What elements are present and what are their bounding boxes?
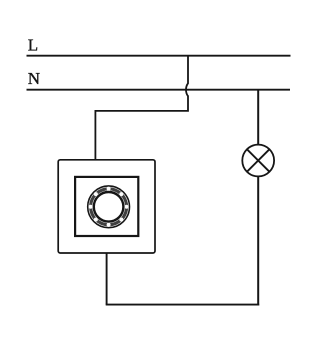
wire N line <box>27 89 291 91</box>
dimmer knob outer circle <box>88 186 130 228</box>
svg-text:N: N <box>28 69 40 88</box>
dimmer switch S1 outer plate <box>58 160 155 253</box>
dimmer switch S1 inner plate <box>75 177 138 236</box>
wire dimmer output down <box>106 253 108 305</box>
wire lamp to bottom run <box>257 176 259 305</box>
dimmer knob inner circle <box>94 192 124 222</box>
lamp E1 <box>242 145 274 177</box>
wire N to lamp <box>257 90 259 145</box>
dimmer knob ball dots <box>89 187 129 227</box>
wire bottom run <box>106 304 260 306</box>
svg-text:L: L <box>28 36 38 55</box>
wire L line <box>27 55 291 57</box>
wire L tap to dimmer (hop over N line) <box>95 56 188 160</box>
dimmer knob knurled ring <box>91 189 127 225</box>
